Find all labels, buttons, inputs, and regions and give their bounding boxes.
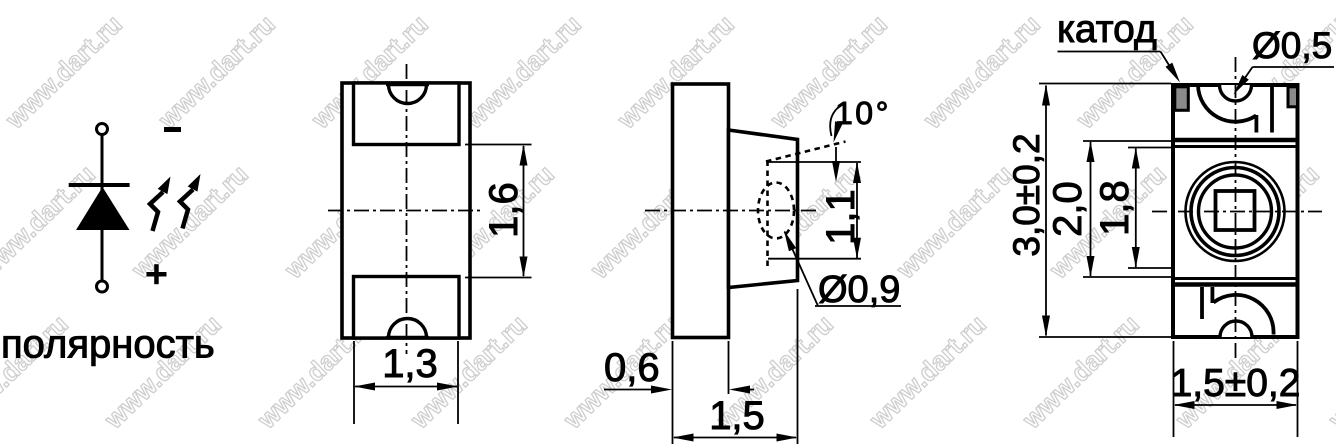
svg-text:www.dart.ru: www.dart.ru xyxy=(152,9,281,135)
svg-text:1,3: 1,3 xyxy=(382,342,438,386)
front view vertical centerline xyxy=(406,64,408,354)
lens outer circle xyxy=(1186,162,1285,261)
dimension 1,8 line xyxy=(1132,148,1140,269)
dimension 1,6 text xyxy=(482,182,526,238)
dimension 2,0 line xyxy=(1087,141,1095,277)
dimension 1,6 line xyxy=(520,145,528,278)
svg-text:www.dart.ru: www.dart.ru xyxy=(917,9,1046,135)
node - top terminal circle xyxy=(97,124,108,135)
svg-text:www.dart.ru: www.dart.ru xyxy=(890,159,1019,285)
dimension 1,1 text xyxy=(819,189,863,245)
leader arrow for 10 deg xyxy=(830,104,843,143)
dimension 1,8 extension lines xyxy=(1128,148,1173,269)
LED chip square xyxy=(1216,191,1255,230)
svg-text:катод: катод xyxy=(1057,8,1157,51)
dimension 1,5±0,2 text xyxy=(1171,362,1301,405)
light emission arrow 2 xyxy=(180,174,201,229)
lower separator thin line xyxy=(1175,277,1296,280)
text diameter 0,9 xyxy=(818,269,900,311)
svg-text:3,0±0,2: 3,0±0,2 xyxy=(1006,133,1047,256)
dimension 1,1 line xyxy=(853,162,861,259)
dimension 3,0±0,2 extension lines xyxy=(1039,84,1171,338)
dimension 3,0±0,2 text xyxy=(1006,133,1047,256)
dimension 2,0 extension lines xyxy=(1083,141,1173,277)
diode D1 cathode bar xyxy=(69,183,130,187)
dimension 1,3 extension lines xyxy=(354,341,458,424)
side view body trapezoid xyxy=(729,130,798,288)
svg-text:полярность: полярность xyxy=(1,323,215,367)
top view upper notch xyxy=(1220,85,1252,101)
top view package outline xyxy=(1173,85,1298,337)
front view top terminal xyxy=(354,83,460,145)
svg-text:www.dart.ru: www.dart.ru xyxy=(1016,309,1145,435)
side view horizontal centerline xyxy=(645,210,820,212)
svg-text:1,6: 1,6 xyxy=(482,182,526,238)
svg-text:www.dart.ru: www.dart.ru xyxy=(125,159,254,285)
dimension 1,1 extension lines xyxy=(768,162,862,259)
front view bottom terminal xyxy=(354,277,460,339)
top view vertical centerline xyxy=(1235,57,1237,358)
dimension 2,0 text xyxy=(1046,181,1090,237)
text 10 deg xyxy=(835,95,891,131)
svg-text:Ø0,5: Ø0,5 xyxy=(1252,25,1332,66)
dimension 3,0±0,2 line xyxy=(1042,85,1050,337)
svg-text:Ø0,9: Ø0,9 xyxy=(818,269,900,311)
lens middle circle xyxy=(1191,168,1279,256)
dimension 1,5±0,2 line xyxy=(1174,401,1298,409)
minus polarity label xyxy=(164,127,181,132)
front view top notch xyxy=(386,85,429,104)
cathode corner mark left (gray) xyxy=(1175,87,1189,111)
dimension 1,5±0,2 extension lines xyxy=(1174,341,1298,437)
dimension 0,6 text xyxy=(604,346,660,390)
svg-text:2,0: 2,0 xyxy=(1046,181,1090,237)
svg-text:www.dart.ru: www.dart.ru xyxy=(458,9,587,135)
text катод xyxy=(1057,8,1157,51)
leader arrow катод xyxy=(1058,52,1181,83)
down arrow at lens top line xyxy=(832,147,840,182)
plus polarity label xyxy=(147,264,167,284)
lens inner circle xyxy=(1199,175,1272,248)
upper right bar xyxy=(1270,85,1274,133)
dimension 1,5 extension line right xyxy=(797,289,799,444)
diode D1 anode triangle xyxy=(76,187,130,230)
node + bottom terminal circle xyxy=(97,281,108,292)
svg-text:1,8: 1,8 xyxy=(1093,180,1137,236)
top view horizontal centerline xyxy=(1152,211,1322,213)
front view body outline xyxy=(342,83,470,338)
top view lower lead-frame arc xyxy=(1213,295,1273,335)
lower arc tail bar xyxy=(1211,287,1215,303)
leader arrow diameter 0,5 xyxy=(1234,67,1335,95)
dimension 1,3 line xyxy=(354,383,458,391)
light emission arrow 1 xyxy=(150,177,171,232)
corner mark right (gray) xyxy=(1288,87,1298,107)
lower left bar xyxy=(1200,287,1204,319)
front view bottom notch xyxy=(386,319,429,338)
side view hidden lens dome ellipse xyxy=(758,183,794,239)
svg-text:www.dart.ru: www.dart.ru xyxy=(0,9,128,135)
upper separator thick line xyxy=(1175,138,1296,142)
top view upper lead-frame arc xyxy=(1198,85,1256,122)
svg-text:10°: 10° xyxy=(835,95,891,131)
top view lower notch xyxy=(1220,321,1252,337)
svg-text:1,5±0,2: 1,5±0,2 xyxy=(1171,362,1301,405)
side view hidden lens axis line xyxy=(766,161,769,268)
dimension 1,6 extension lines xyxy=(465,145,532,278)
dimension 0,6 extension lines xyxy=(673,341,729,444)
front view horizontal centerline xyxy=(328,210,481,212)
dimension 0,6 line xyxy=(604,386,754,394)
svg-text:1,5: 1,5 xyxy=(709,394,765,438)
svg-text:0,6: 0,6 xyxy=(604,346,660,390)
dimension 1,8 text xyxy=(1093,180,1137,236)
dimension 1,5 line xyxy=(673,434,798,442)
svg-text:1,1: 1,1 xyxy=(819,189,863,245)
text полярность xyxy=(1,323,215,367)
wire (LED symbol lead, vertical) xyxy=(101,134,104,282)
svg-text:www.dart.ru: www.dart.ru xyxy=(1322,309,1336,435)
svg-text:www.dart.ru: www.dart.ru xyxy=(863,309,992,435)
upper separator thin line xyxy=(1175,145,1296,148)
upper arc tail bar xyxy=(1255,115,1259,133)
dimension 1,5 text xyxy=(709,394,765,438)
side view hidden slant line 10 deg xyxy=(766,142,846,162)
dimension 1,3 text xyxy=(382,342,438,386)
text diameter 0,5 xyxy=(1252,25,1332,66)
lower separator thick line xyxy=(1175,282,1296,286)
side view flange outline xyxy=(673,84,729,338)
leader for diameter 0,9 xyxy=(784,231,901,307)
